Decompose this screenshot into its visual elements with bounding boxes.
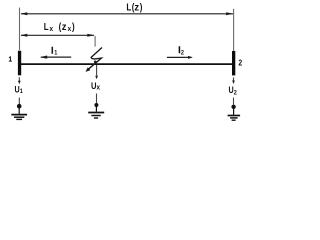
fault lightning arrow: [86, 48, 103, 72]
svg-text:): ): [72, 21, 75, 32]
svg-text:1: 1: [20, 89, 24, 95]
extension line left (above busbar 1): [19, 8, 21, 50]
extension line right (above busbar 2): [233, 9, 235, 51]
busbar node 1: [18, 51, 21, 76]
label Ux: [91, 80, 100, 91]
svg-text:z: z: [134, 2, 139, 13]
current arrow I1 (pointing left): [40, 56, 71, 59]
svg-text:L: L: [126, 2, 131, 13]
svg-text:L: L: [44, 21, 49, 32]
busbar node 2: [232, 51, 235, 75]
label U2: [229, 85, 238, 96]
svg-text:I: I: [51, 45, 53, 56]
label L (z): [126, 2, 142, 14]
wire U1 to ground: [18, 98, 20, 105]
ground (node 1): [11, 104, 27, 120]
extension line middle (to fault point): [94, 36, 96, 47]
svg-text:z: z: [62, 22, 67, 33]
transmission line (wire): [20, 63, 233, 65]
label Lx (zx): [44, 21, 75, 33]
svg-text:x: x: [50, 26, 54, 34]
svg-text:2: 2: [181, 50, 185, 56]
label I1: [51, 45, 58, 57]
voltage arrow U2: [232, 77, 235, 84]
dimension line Lx(zx): [20, 34, 94, 37]
svg-text:): ): [140, 2, 143, 13]
voltage arrow U1: [18, 77, 21, 84]
current arrow I2 (pointing right): [167, 56, 193, 59]
svg-text:2: 2: [234, 90, 238, 96]
svg-text:x: x: [68, 26, 72, 34]
label 2: [238, 58, 242, 68]
label 1: [9, 56, 13, 64]
svg-text:2: 2: [238, 58, 242, 68]
ground (node 2): [228, 105, 241, 121]
svg-text:x: x: [97, 84, 101, 92]
wire Ux to ground: [96, 94, 98, 104]
voltage arrow Ux: [95, 65, 98, 79]
dimension line L(z): [20, 12, 233, 15]
label U1: [15, 85, 24, 96]
label I2: [178, 44, 184, 57]
svg-text:1: 1: [9, 56, 13, 64]
ground (fault point): [88, 103, 104, 118]
wire U2 to ground: [233, 98, 235, 105]
svg-text:1: 1: [54, 50, 58, 56]
